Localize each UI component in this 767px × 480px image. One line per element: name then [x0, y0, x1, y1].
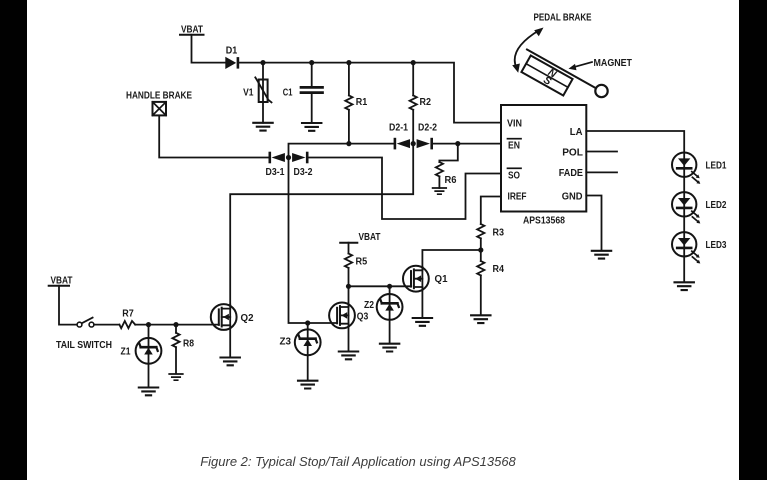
ground at GND pin — [592, 251, 611, 259]
pedal rotation arrow — [512, 28, 543, 73]
node R2 top — [411, 60, 416, 65]
pedal lever — [527, 50, 597, 89]
wire R7 to Q2 gate — [135, 324, 219, 326]
svg-text:APS13568: APS13568 — [523, 215, 565, 227]
resistor R6 — [436, 144, 458, 188]
diode D2-2 — [417, 123, 438, 149]
svg-text:GND: GND — [562, 191, 583, 203]
svg-text:D2-1: D2-1 — [389, 123, 408, 134]
svg-text:LED1: LED1 — [706, 160, 727, 171]
svg-text:D3-2: D3-2 — [294, 167, 313, 178]
svg-text:R8: R8 — [183, 338, 194, 349]
tail switch — [77, 318, 94, 327]
capacitor C1 — [283, 63, 323, 123]
left black border bar — [0, 0, 27, 480]
net VBAT (bottom left) label — [49, 275, 73, 286]
svg-text:Z1: Z1 — [121, 346, 131, 357]
net VBAT (top) label — [180, 25, 204, 36]
svg-text:VBAT: VBAT — [359, 232, 381, 243]
node Z2 top — [387, 284, 392, 289]
net VBAT (mid) label — [340, 232, 380, 243]
svg-text:MAGNET: MAGNET — [594, 58, 633, 69]
wire VBAT to top bus — [192, 35, 226, 63]
ground under Q1 — [413, 318, 432, 326]
node D3 center — [286, 155, 291, 160]
svg-text:LA: LA — [570, 126, 583, 138]
svg-text:Q1: Q1 — [435, 274, 448, 285]
wire VBAT to tail switch — [59, 286, 77, 325]
svg-text:VIN: VIN — [507, 118, 522, 130]
svg-text:TAIL SWITCH: TAIL SWITCH — [56, 340, 112, 351]
resistor R4 — [477, 250, 504, 315]
LED1 — [672, 153, 700, 184]
ground under Q2 — [221, 358, 240, 366]
pin SO (active low) — [508, 168, 522, 181]
ground under Z3 — [298, 381, 317, 389]
svg-text:D1: D1 — [226, 46, 238, 57]
wire LA to LED chain — [586, 131, 684, 153]
ground under LED3 — [675, 282, 694, 290]
wire Q2 source to ground — [229, 305, 231, 357]
wire LED chain vertical — [683, 153, 685, 282]
transistor Q1 — [403, 266, 448, 292]
svg-text:HANDLE BRAKE: HANDLE BRAKE — [126, 91, 192, 102]
svg-text:Q2: Q2 — [241, 313, 254, 324]
diode D3-2 — [292, 153, 313, 178]
node Z1 top — [146, 322, 151, 327]
stub FADE — [586, 171, 617, 173]
transistor Q3 — [329, 303, 369, 329]
svg-text:VBAT: VBAT — [51, 275, 73, 286]
magnet N/S body — [521, 55, 573, 97]
zener Z1 — [121, 338, 162, 364]
pin EN (active low) — [508, 139, 522, 152]
svg-text:PEDAL BRAKE: PEDAL BRAKE — [534, 13, 592, 24]
node R1 top — [346, 60, 351, 65]
node V1 top — [260, 60, 265, 65]
svg-text:R4: R4 — [493, 264, 505, 275]
handle brake switch box — [153, 102, 167, 116]
ground under Q3 — [339, 352, 358, 360]
svg-text:R6: R6 — [445, 175, 457, 186]
svg-text:POL: POL — [562, 146, 583, 158]
svg-text:R2: R2 — [420, 97, 432, 108]
svg-text:D2-2: D2-2 — [418, 123, 437, 134]
node R3/R4 — [478, 247, 483, 252]
transistor Q2 — [211, 304, 254, 330]
small ground under R6 — [433, 188, 447, 194]
svg-text:Z3: Z3 — [280, 336, 292, 347]
wire R5 node to Q1 gate — [349, 285, 412, 287]
op IC U1 APS13568 box — [501, 105, 586, 227]
svg-text:EN: EN — [508, 140, 520, 152]
resistor R3 — [477, 224, 504, 250]
wire Z3 to ground — [307, 323, 309, 380]
wire Q3 drain/source vertical — [348, 286, 350, 351]
node Z3 top — [305, 320, 310, 325]
diode D2-1 — [389, 123, 410, 149]
svg-text:IREF: IREF — [508, 191, 527, 203]
diode D1 — [225, 46, 238, 70]
node D2 center / R2 bottom — [411, 141, 416, 146]
wire switch to R7 — [94, 324, 119, 326]
LED2 — [672, 192, 700, 223]
svg-text:R5: R5 — [356, 256, 368, 267]
ground under R4 — [471, 315, 490, 323]
node C1 top — [309, 60, 314, 65]
ground under V1 — [253, 123, 272, 131]
wire IREF to R3 — [481, 197, 501, 225]
varistor V1 — [243, 63, 271, 123]
stub POL — [586, 151, 617, 153]
wire Z1 to ground — [148, 325, 150, 387]
wire top bus D1 to VIN corner — [238, 63, 501, 123]
wire D3 node down to Q3 gate — [289, 158, 338, 324]
resistor R2 — [410, 63, 432, 144]
svg-text:C1: C1 — [283, 88, 293, 99]
resistor R5 — [345, 243, 368, 287]
svg-text:Figure 2: Typical Stop/Tail Ap: Figure 2: Typical Stop/Tail Application … — [200, 454, 516, 469]
zener Z3 — [280, 329, 321, 355]
svg-text:Q3: Q3 — [357, 312, 369, 323]
node R1 bottom — [346, 141, 351, 146]
wire R3/R4 node to Q1 drain — [422, 250, 480, 267]
pedal pivot circle — [595, 85, 607, 97]
LED3 — [672, 232, 700, 263]
ground under C1 — [302, 123, 321, 131]
wire Q2 drain to D2 node — [230, 144, 413, 305]
wire D3-2 to SO pin — [307, 158, 501, 220]
wire D2-2 to EN pin — [432, 143, 501, 145]
svg-text:SO: SO — [508, 169, 520, 181]
zener Z2 — [364, 294, 403, 320]
diode D3-1 — [266, 153, 285, 178]
wire GND pin to ground — [586, 196, 601, 251]
svg-text:LED3: LED3 — [706, 240, 727, 251]
svg-text:R3: R3 — [493, 227, 505, 238]
svg-text:LED2: LED2 — [706, 200, 727, 211]
resistor R7 — [119, 309, 135, 329]
node R6 tap — [455, 141, 460, 146]
wire EN bus left segment (to D3 node) — [289, 144, 395, 158]
MAGNET label with arrow — [569, 58, 633, 70]
ground under Z1 — [139, 388, 158, 396]
ground under R8 — [169, 374, 183, 380]
svg-text:D3-1: D3-1 — [266, 167, 285, 178]
node R5 bottom / Q3 drain — [346, 284, 351, 289]
ground under Z2 — [380, 344, 399, 352]
wire Z2 to ground — [389, 286, 391, 343]
svg-text:R1: R1 — [356, 97, 368, 108]
resistor R8 — [172, 325, 194, 374]
right black border bar — [739, 0, 767, 480]
svg-text:Z2: Z2 — [364, 300, 374, 311]
svg-text:V1: V1 — [243, 88, 254, 99]
resistor R1 — [345, 63, 367, 144]
svg-text:FADE: FADE — [559, 167, 583, 179]
wire handle brake to D3-1 — [159, 115, 269, 157]
svg-text:R7: R7 — [122, 309, 134, 320]
node R8 top — [173, 322, 178, 327]
wire Q1 source to ground — [421, 267, 423, 317]
